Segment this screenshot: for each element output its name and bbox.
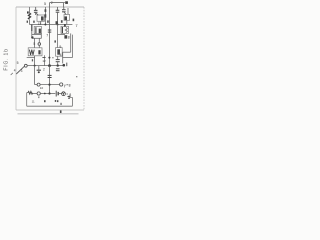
switch S1 lever tail outside boundary xyxy=(11,73,13,75)
wire: stub into R2 xyxy=(27,92,28,94)
switch S1 contact circle xyxy=(24,64,27,67)
wire: B1 to lamp L1 xyxy=(59,93,62,95)
svg-text:10: 10 xyxy=(40,86,44,90)
svg-text:8: 8 xyxy=(68,35,70,39)
block box U2 xyxy=(64,15,70,21)
svg-text:2: 2 xyxy=(43,68,45,72)
label mark below boundary bottom xyxy=(60,110,62,113)
label 1 (for R1) xyxy=(27,11,29,13)
wire: R2 to connector P4 xyxy=(33,92,37,94)
diode D1 xyxy=(64,35,67,38)
svg-text:9: 9 xyxy=(59,45,61,49)
svg-text:5: 5 xyxy=(17,61,19,65)
Q1 inner bar xyxy=(35,27,37,33)
label mark above rail left xyxy=(33,21,35,23)
resistor R1 with leads xyxy=(28,7,30,25)
label mark above rail center xyxy=(47,20,49,22)
label 3 right of Q2 xyxy=(73,19,75,22)
junction on N3 at x=57.7 xyxy=(57,64,59,66)
svg-text:FIG. 1b: FIG. 1b xyxy=(3,48,9,70)
leader dash right of L1 xyxy=(67,93,68,95)
label mark above N3 left xyxy=(32,59,33,61)
terminal arrow blob T1 xyxy=(65,1,68,4)
junction on N3 at x=49.5 xyxy=(48,64,51,67)
wire: below Q2 xyxy=(58,34,66,36)
block box Q1 xyxy=(34,27,41,34)
wire: horizontal rail net N2 xyxy=(30,24,73,26)
label mark below P4 xyxy=(38,96,39,98)
wire: branch from N3 down at x=34.6 xyxy=(34,66,36,85)
wire: diagonal into U1 xyxy=(36,13,38,15)
wire: short drop from terminal run to boundary xyxy=(62,3,64,7)
Q2 inner bar xyxy=(61,27,63,33)
wire: center vertical net N1 xyxy=(49,7,51,66)
battery B1 long plate xyxy=(55,91,57,97)
enclosure boundary box top edge xyxy=(16,6,84,8)
capacitor C6 below U3 xyxy=(56,60,60,62)
capacitor C4 upper plate mark xyxy=(45,9,47,12)
Q2 inner zigzag xyxy=(65,27,67,32)
junction dot on center line at y=57.6 xyxy=(48,57,50,59)
wire: top terminal lead up from node A xyxy=(49,3,51,7)
label blob left of C2 lead xyxy=(56,21,58,24)
svg-text:3: 3 xyxy=(21,69,23,73)
block box U1 xyxy=(37,15,45,21)
svg-text:11: 11 xyxy=(38,22,42,26)
connector circle P3 xyxy=(60,83,63,86)
capacitor C5 on center line xyxy=(48,30,52,32)
junction on this wire at center xyxy=(48,84,50,86)
capacitor C1 with leads xyxy=(34,7,38,15)
bottom scan band xyxy=(18,113,79,115)
label above U3 xyxy=(54,40,56,42)
wire: into P1 xyxy=(38,38,40,42)
lamp L1 inner Y mark xyxy=(62,93,64,96)
wire: drop at x=44.6 xyxy=(44,55,46,65)
junction dot at x=44.8 xyxy=(44,93,46,95)
block box U3 xyxy=(56,48,63,57)
wire: right drop beside U2 xyxy=(67,8,69,14)
capacitor C3 with leads xyxy=(62,7,66,15)
label mark above rail right xyxy=(61,20,63,23)
lamp L1 circle xyxy=(62,92,66,96)
switch S1 lever xyxy=(16,66,24,74)
capacitor C4 lower plate mark xyxy=(45,14,47,17)
svg-text:5: 5 xyxy=(44,2,46,6)
junction dot at x=49.5 xyxy=(48,92,50,94)
tick beyond N3 end xyxy=(66,63,68,67)
wire: center line down to battery row xyxy=(49,66,51,94)
wire: inner L from Q2 down-left xyxy=(63,33,71,63)
wire: P2 to P3 xyxy=(40,84,60,86)
junction on N3 at x=34.6 xyxy=(34,65,36,67)
wire: left feed below rail xyxy=(31,25,33,32)
dark element inside U3 xyxy=(57,49,60,54)
transformer box T2 xyxy=(28,48,42,56)
wire: lower loop right edge xyxy=(71,97,73,106)
wire: B2 to loop corner xyxy=(69,97,73,98)
resistor R2 zigzag xyxy=(28,91,33,94)
capacitor C8 hanging below N3 xyxy=(38,66,40,70)
dark element inside U1 xyxy=(41,16,44,20)
wire: outer L from Q2 to U3 xyxy=(62,35,72,58)
wire: rail to U3 top xyxy=(57,25,59,48)
capacitor C7 below main wire xyxy=(56,69,60,71)
connector circle P4 xyxy=(37,92,40,95)
wire: turn right to connector P2 xyxy=(35,84,38,86)
label mark in loop x=57 xyxy=(57,100,58,102)
wire: U2 to rail xyxy=(66,20,68,24)
enclosure boundary box bottom edge xyxy=(16,109,84,111)
junction dot below Q1 xyxy=(31,36,33,38)
wire: drop at x=45.4 xyxy=(44,7,46,25)
svg-text:4: 4 xyxy=(14,68,16,72)
svg-text:7: 7 xyxy=(46,34,48,38)
wire: lower loop bottom edge xyxy=(27,105,73,107)
label 3 left of R1 lead xyxy=(27,21,28,23)
svg-text:y: y xyxy=(64,84,66,88)
block box Q2 xyxy=(61,26,69,33)
wire: stub left of T2 bottom xyxy=(27,57,35,59)
terminal dot at N3 end xyxy=(63,64,66,67)
svg-text:11: 11 xyxy=(32,99,35,103)
connector circle P2 xyxy=(37,83,40,86)
dark element inside T2 xyxy=(38,50,40,54)
label mark in loop x=44 xyxy=(44,100,46,102)
battery B1 short plate xyxy=(57,92,59,95)
wire: main middle net N3 xyxy=(27,65,63,67)
wire: top terminal horizontal run xyxy=(50,2,65,4)
svg-text:4: 4 xyxy=(60,53,62,57)
wire: lower loop left edge xyxy=(26,93,28,107)
winding inside T2 xyxy=(29,50,34,55)
cell B2 plates xyxy=(68,97,71,99)
svg-text:5: 5 xyxy=(33,42,35,46)
wire: T2 bottom to main wire xyxy=(34,56,36,66)
svg-text:2: 2 xyxy=(51,1,53,5)
capacitor C9 on center line xyxy=(48,75,52,77)
tick near right boundary lower xyxy=(76,76,77,78)
label blob on rail right xyxy=(64,24,66,27)
crossing tick on x=44.6 drop xyxy=(42,57,45,59)
wire: down from label row xyxy=(68,96,70,98)
wire: P4 to battery B1 xyxy=(40,93,55,95)
wires below Q1 xyxy=(32,31,42,48)
enclosure boundary box right edge (dotted) xyxy=(83,7,85,110)
tick right of center line xyxy=(52,57,53,59)
leader dash xyxy=(66,84,68,86)
Q1 inner dark element xyxy=(39,29,41,34)
label mark in loop x=60.4 xyxy=(60,103,61,105)
svg-text:12: 12 xyxy=(42,59,46,63)
svg-text:8: 8 xyxy=(69,83,71,87)
enclosure boundary box left edge xyxy=(15,7,17,110)
wire: out of P1 xyxy=(38,45,40,48)
dark element inside U2 xyxy=(65,16,68,20)
wire: U1 to rail xyxy=(40,21,42,24)
wire: U3 through C6 to main wire xyxy=(57,56,59,65)
junction on rail at x=45.4 xyxy=(44,24,46,26)
connector circle P1 xyxy=(38,43,41,46)
capacitor C2 with leads xyxy=(56,7,60,25)
label mark in loop x=54.8 xyxy=(55,100,56,102)
junction on rail at x=57.5 xyxy=(57,24,59,26)
